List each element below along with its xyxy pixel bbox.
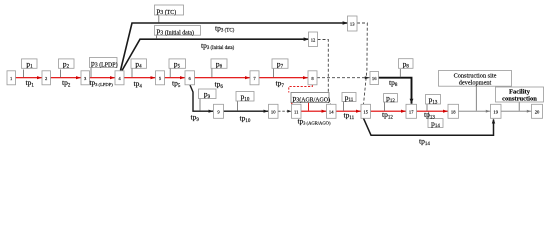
node 7 [250, 71, 259, 85]
wire tp9 path node6 to node9 [190, 85, 213, 111]
svg-text:14: 14 [329, 109, 334, 114]
stem p6 [211, 69, 213, 78]
wire gray node19 to node20 [501, 110, 532, 112]
stem p3 TC [158, 15, 160, 23]
arrow into node 17 [401, 110, 406, 113]
stem p9 [199, 99, 201, 111]
wire red stem AGR label to line [308, 103, 310, 111]
label p7 [272, 59, 288, 70]
arrow into node 20 [527, 110, 531, 113]
node 19 [491, 104, 502, 118]
wire bottom red row 11-18 [296, 110, 453, 112]
wire dashed node12 to node14 [318, 40, 331, 105]
svg-text:17: 17 [409, 109, 414, 114]
label facility construction box [496, 87, 544, 103]
label p9 [199, 89, 217, 100]
stem construction site box [475, 86, 477, 111]
arrow into node 7 [245, 76, 250, 79]
wire tp14 path node15 to node19 [364, 118, 494, 135]
wire top line node4 to node13 [121, 23, 349, 71]
svg-text:20: 20 [535, 109, 540, 114]
stem p10 [236, 101, 238, 111]
label p13 [426, 95, 441, 106]
stem facility box [518, 102, 520, 111]
node 3 [81, 71, 90, 85]
arrow into node 2 [37, 76, 42, 79]
label p5 [169, 59, 186, 70]
node 11 [292, 104, 302, 118]
stem p13 [426, 104, 428, 111]
node 5 [156, 71, 165, 85]
label p14 [428, 119, 443, 130]
stem p7 [272, 69, 274, 78]
svg-text:16: 16 [372, 76, 377, 81]
wire tp10 node9 to node10 [224, 110, 269, 112]
wire second line node4 to node12 [122, 39, 309, 70]
stem p2 [59, 70, 61, 78]
node 1 [7, 71, 16, 85]
node 15 [361, 104, 371, 118]
stem p12 [384, 102, 386, 111]
node 20 [532, 104, 543, 118]
arrow into node 10 [264, 110, 269, 113]
wire main red row 1-8 [11, 77, 312, 79]
label p3 (Initial data) [155, 26, 201, 37]
label p6 [211, 59, 227, 70]
node 12 [309, 32, 318, 47]
svg-text:11: 11 [294, 109, 299, 114]
stem p8 [399, 69, 401, 77]
stem p4 [131, 69, 133, 78]
svg-text:construction: construction [502, 96, 537, 103]
node 9 [214, 104, 224, 118]
arrow into node 9 [209, 110, 214, 113]
node 16 [370, 72, 379, 85]
label p2 [59, 59, 75, 70]
arrow into node 8 [303, 76, 308, 79]
svg-text:10: 10 [271, 109, 276, 114]
svg-text:Facility: Facility [509, 89, 531, 96]
label p1 [22, 59, 38, 70]
arrow into node 18 [443, 110, 448, 113]
svg-text:12: 12 [311, 38, 316, 43]
wire red dashed AGR label to node11 [291, 103, 294, 108]
label construction site development box [439, 71, 512, 87]
label p3 (LPDP) [90, 58, 118, 69]
svg-text:13: 13 [350, 22, 355, 27]
label p12 [384, 94, 398, 104]
arrow into node 12 [304, 37, 309, 41]
svg-text:development: development [459, 79, 492, 86]
node 18 [448, 104, 459, 118]
label p3 (TC) [155, 5, 184, 16]
node 13 [348, 16, 358, 31]
label p8 [399, 59, 414, 70]
node 6 [185, 71, 195, 85]
arrow into node 13 [343, 21, 348, 25]
arrow into node 3 [76, 76, 81, 79]
svg-text:18: 18 [451, 109, 456, 114]
node 14 [327, 104, 337, 118]
stem p3 LPDP [90, 68, 92, 78]
wire tp8 path node16 to node17 [379, 78, 412, 104]
label p4 [131, 59, 147, 70]
arrow into node 11 [287, 110, 291, 113]
arrow into node 14 [322, 110, 327, 113]
node 4 [115, 71, 124, 85]
wire gray node18 to node19 [459, 110, 491, 112]
stem p3 Initial data [156, 35, 158, 39]
svg-text:19: 19 [493, 109, 498, 114]
label p10 [236, 92, 254, 103]
arrow into node 17 top [410, 99, 414, 104]
svg-text:Construction site: Construction site [454, 72, 497, 79]
arrow into node 4 [110, 76, 115, 79]
wire red dashed node8 to AGR label [289, 85, 313, 93]
svg-text:15: 15 [363, 109, 368, 114]
arrow into node 19 [486, 110, 490, 113]
arrow into node 5 [151, 76, 156, 79]
arrow up into node 19 [492, 119, 495, 124]
wire dashed node13 to node15 [357, 23, 367, 104]
wire dashed node8 to node16 [317, 77, 370, 79]
wire dashed node10 to node11 [278, 110, 292, 112]
node 8 [308, 71, 317, 85]
arrow into node 15 [356, 110, 361, 113]
label p3 (AGR/AGO) [291, 93, 330, 104]
arrow into node 6 [180, 76, 185, 79]
node 17 [406, 104, 417, 118]
arrow into node 16 [365, 76, 370, 79]
label p11 [342, 93, 356, 104]
stem p5 [169, 69, 171, 78]
node 2 [42, 71, 51, 85]
stem p11 [343, 102, 345, 111]
stem p14 [428, 112, 430, 119]
node 10 [269, 104, 279, 118]
stem p1 [22, 70, 24, 78]
